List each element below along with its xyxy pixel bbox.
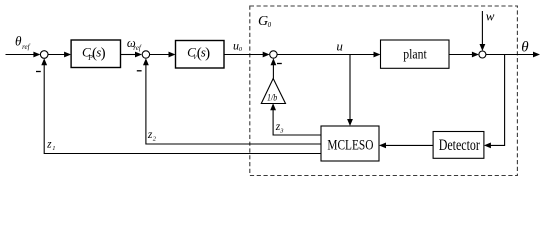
minus sign at S3 <box>277 63 282 65</box>
wire feedback from output down to Detector <box>490 55 505 146</box>
svg-text:CP(s): CP(s) <box>82 44 106 61</box>
wire input to sum1 <box>6 54 35 56</box>
wire sum1 to Cp <box>48 54 66 56</box>
svg-text:Cv(s): Cv(s) <box>187 44 210 61</box>
minus sign at S2 <box>137 70 142 72</box>
block Detector <box>433 132 484 159</box>
block Cp(s) <box>71 40 120 68</box>
svg-text:u: u <box>336 38 343 53</box>
wire plant to sum4 <box>449 54 473 56</box>
wire sum2 to Cv <box>150 54 170 56</box>
minus sign at S1 <box>36 71 41 73</box>
wire output theta <box>486 54 534 56</box>
svg-text:θ: θ <box>521 39 529 55</box>
wire z1 from MCLESO to sum1 <box>44 64 321 154</box>
svg-text:plant: plant <box>403 48 427 63</box>
wire z3 from MCLESO to 1/b triangle <box>273 108 321 135</box>
summing junction S1 <box>40 51 48 59</box>
block plant <box>381 40 450 68</box>
wire w down into sum4 <box>481 11 483 46</box>
wire Cv to sum3 <box>224 54 264 56</box>
summing junction S4 <box>479 51 486 58</box>
svg-text:1/b: 1/b <box>267 92 277 103</box>
svg-text:w: w <box>486 9 495 24</box>
svg-text:MCLESO: MCLESO <box>327 138 373 154</box>
block MCLESO <box>321 126 379 161</box>
wire sum3 to plant <box>277 54 375 56</box>
amplifier 1/b triangle <box>261 79 285 104</box>
block Cv(s) <box>176 41 225 69</box>
wire u branch down to MCLESO <box>349 55 351 121</box>
wire z2 from MCLESO to sum2 <box>146 64 321 145</box>
wire 1/b to sum3 <box>272 64 274 79</box>
wire Detector to MCLESO <box>385 144 434 146</box>
wire Cp to sum2 <box>121 54 137 56</box>
summing junction S2 <box>142 51 149 58</box>
dashed box G0 <box>250 6 518 176</box>
svg-text:Detector: Detector <box>439 137 480 154</box>
summing junction S3 <box>270 51 277 58</box>
